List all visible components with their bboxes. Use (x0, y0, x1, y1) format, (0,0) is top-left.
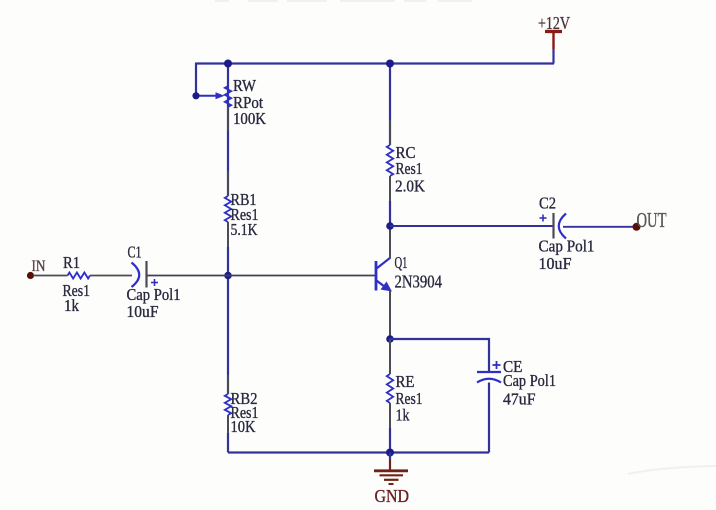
wire C1 to base junction to Q1 base (147, 275, 376, 277)
wire C2 to OUT port (563, 226, 634, 228)
svg-text:10K: 10K (231, 417, 256, 436)
capacitor C1 straight plate (145, 261, 147, 288)
resistor R1 body (68, 273, 91, 279)
label 1k (RE) (396, 406, 411, 425)
wire RC to collector node (389, 201, 391, 226)
ground stub (389, 453, 391, 470)
capacitor C1 plus sign (151, 279, 158, 286)
node wiper junction (192, 92, 199, 99)
label RC (396, 143, 416, 162)
capacitor CE curved plate (477, 379, 501, 383)
label 1k (R1) (64, 296, 80, 315)
label 100K (233, 109, 266, 128)
resistor RC body (387, 145, 393, 176)
svg-text:1k: 1k (64, 296, 80, 315)
wire RC column x=390 top rail down to zigzag (389, 64, 391, 146)
cropped title remnants (top edge) (215, 0, 472, 2)
svg-text:+12V: +12V (538, 13, 570, 33)
label OUT (637, 208, 667, 232)
label Cap Pol1 (CE) (503, 371, 556, 390)
svg-text:OUT: OUT (637, 208, 667, 232)
label 47uF (503, 390, 536, 409)
wire collector node to C2 (390, 225, 554, 227)
node base junction (224, 272, 232, 280)
label Cap Pol1 (C1) (127, 285, 181, 304)
faint scan smudge (bottom right) (628, 466, 716, 474)
svg-text:C2: C2 (539, 194, 556, 213)
label +12V (538, 13, 570, 33)
resistor RB2 pins (227, 375, 229, 433)
transistor Q1 emitter diagonal with arrow (377, 281, 393, 292)
svg-text:Cap Pol1: Cap Pol1 (503, 371, 556, 390)
label Cap Pol1 (C2) (539, 237, 595, 256)
capacitor CE plus sign (493, 361, 501, 369)
node collector junction (386, 222, 394, 230)
label R1 (63, 253, 80, 272)
label Res1 (RB2) (231, 403, 259, 422)
svg-text:Cap Pol1: Cap Pol1 (539, 237, 595, 256)
label RE (396, 372, 415, 391)
label Q1 (395, 253, 408, 272)
ground bars (374, 471, 408, 484)
svg-text:1k: 1k (396, 406, 411, 425)
resistor RE pins (389, 339, 391, 428)
potentiometer RW body (225, 86, 231, 107)
label IN (32, 258, 46, 275)
label 2N3904 (395, 272, 443, 292)
svg-text:2N3904: 2N3904 (395, 272, 443, 292)
wire top rail from pot corner to +12V stub (196, 62, 554, 64)
resistor RB1 pins (227, 171, 229, 247)
capacitor CE bottom pin / wire to rail (488, 383, 490, 453)
svg-text:2.0K: 2.0K (395, 177, 425, 196)
wire pot vertical column (x=228) top rail down to RB1 (227, 64, 229, 197)
potentiometer RW pin stubs (227, 107, 229, 131)
label Res1 (RC) (396, 159, 423, 178)
port IN dot (27, 272, 34, 279)
transistor Q1 collector pin (389, 226, 391, 259)
label 10uF (C1) (127, 302, 159, 321)
wire RB2 to bottom rail (227, 433, 229, 453)
label Res1 (RB1) (231, 205, 259, 224)
svg-text:GND: GND (375, 486, 410, 506)
svg-text:10uF: 10uF (539, 254, 572, 273)
label 2.0K (395, 177, 425, 196)
label CE (503, 357, 523, 376)
power +12V stub (552, 33, 554, 64)
capacitor C1 curved plate (132, 263, 140, 288)
node pot top junction (224, 60, 232, 68)
capacitor CE straight plate (477, 371, 501, 373)
svg-text:100K: 100K (233, 109, 266, 128)
capacitor C2 curved plate (559, 214, 566, 239)
label 10K (231, 417, 256, 436)
label RB2 (231, 389, 258, 408)
wire left drop from top rail to wiper (195, 63, 197, 96)
wire base column x=228 between RB1 and RB2 (227, 247, 229, 394)
node ground junction (386, 449, 394, 457)
label Res1 (RE) (396, 389, 423, 408)
svg-text:10uF: 10uF (127, 302, 159, 321)
resistor RB2 body (225, 394, 231, 415)
label RW (233, 76, 256, 95)
wire IN to R1 (33, 275, 68, 277)
wire emitter node to CE branch (390, 339, 489, 372)
capacitor C2 plus sign (540, 215, 547, 222)
transistor Q1 base bar (375, 261, 378, 291)
port OUT dot (633, 223, 641, 231)
svg-text:IN: IN (32, 258, 46, 275)
svg-text:C1: C1 (128, 243, 142, 262)
label GND (375, 486, 410, 506)
svg-text:Q1: Q1 (395, 253, 408, 272)
svg-text:Res1: Res1 (396, 159, 423, 178)
label RB1 (231, 190, 257, 209)
wire bottom rail (228, 451, 489, 453)
wire R1 to C1 (90, 275, 132, 277)
label RPot (233, 93, 263, 112)
potentiometer RW wiper arrow (216, 92, 225, 99)
node emitter junction (386, 335, 394, 343)
resistor RE body (387, 374, 393, 403)
label C1 (128, 243, 142, 262)
svg-text:47uF: 47uF (503, 390, 536, 409)
power +12V bar (545, 30, 562, 33)
resistor RB1 body (225, 196, 231, 222)
capacitor C2 straight plate (552, 213, 554, 239)
wire wiper horizontal (196, 95, 216, 97)
svg-text:R1: R1 (63, 253, 80, 272)
resistor RC pins (389, 120, 391, 201)
label C2 (539, 194, 556, 213)
label 5.1K (231, 220, 258, 239)
svg-text:5.1K: 5.1K (231, 220, 258, 239)
node RC top junction (386, 60, 394, 68)
label Res1 (R1) (63, 281, 91, 300)
label 10uF (C2) (539, 254, 572, 273)
transistor Q1 collector diagonal (377, 258, 391, 269)
wire RE to bottom rail (389, 428, 391, 453)
transistor Q1 emitter pin (389, 291, 391, 340)
